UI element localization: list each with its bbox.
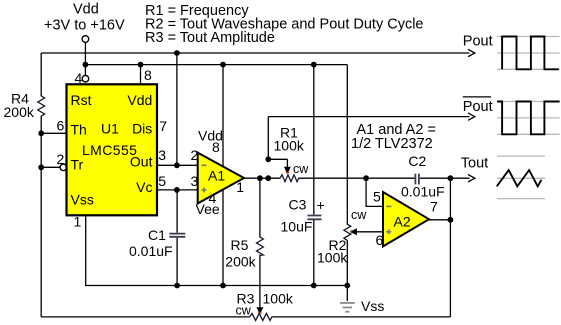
svg-text:Vdd: Vdd [127, 92, 152, 108]
op-amp A1 power pin 8 drop [222, 65, 224, 166]
svg-text:10uF: 10uF [281, 219, 313, 235]
wire C1 branch [176, 190, 178, 286]
junction Tr [38, 164, 44, 170]
op-amp A1 triangle [198, 153, 244, 204]
pin 4 reset bubble [82, 75, 89, 82]
junction Th [38, 130, 44, 136]
junction C1 at ground rail [174, 283, 180, 289]
junction Vdd/pin4 [83, 62, 89, 68]
wire A2 output [429, 219, 450, 221]
svg-text:+3V to +16V: +3V to +16V [44, 17, 125, 33]
svg-text:Pout: Pout [463, 99, 493, 115]
resistor R5 200k [257, 237, 264, 255]
svg-text:7: 7 [159, 118, 167, 134]
svg-text:200k: 200k [4, 104, 35, 120]
junction Pout rail [174, 50, 180, 56]
op-amp A1 Vee pin 4 drop [222, 190, 224, 286]
waveform icon Pout-bar (inverted square wave) [497, 102, 560, 135]
waveform icon Tout (triangle wave) [497, 156, 545, 199]
svg-text:5: 5 [373, 189, 381, 205]
svg-text:100k: 100k [317, 250, 348, 266]
junction A1 out / R5 [257, 175, 263, 181]
svg-text:Pout: Pout [463, 34, 493, 50]
wire left rail (Out feedback to Th/Tr and bottom) [40, 53, 42, 317]
A2 plus sign [386, 229, 391, 234]
svg-text:cw: cw [236, 304, 252, 318]
svg-text:Th: Th [71, 122, 87, 138]
resistor R3 100k (pot) [250, 313, 272, 320]
svg-text:3: 3 [158, 147, 166, 163]
svg-text:1: 1 [236, 179, 244, 195]
svg-text:8: 8 [212, 139, 220, 155]
svg-text:1/2 TLV2372: 1/2 TLV2372 [351, 136, 433, 152]
svg-text:Vc: Vc [136, 179, 152, 195]
ground symbol Vss [340, 303, 355, 312]
wire 555 Vc pin 5 to A1 non-inverting input [157, 189, 198, 191]
junction Vc/C1 [174, 187, 180, 193]
capacitor C3 10uF [307, 216, 321, 220]
wire 555 Vss pin 1 to ground rail [86, 215, 348, 286]
svg-text:C3: C3 [289, 196, 307, 212]
svg-text:C1: C1 [148, 227, 166, 243]
svg-text:U1: U1 [101, 121, 119, 137]
wire pin 4 stub with bubble [84, 65, 86, 76]
svg-text:2: 2 [57, 151, 65, 167]
arrow Pout-bar [468, 113, 475, 120]
R2 wiper arrow (cw) to A2 + input [355, 231, 384, 233]
svg-text:2: 2 [191, 147, 199, 163]
svg-text:Out: Out [130, 154, 153, 170]
junction C3 at Vdd rail [311, 62, 317, 68]
A1 plus sign [202, 187, 207, 192]
wire pin 8 drop [140, 65, 142, 85]
svg-text:1: 1 [74, 213, 82, 229]
junction R2 bottom / ground [344, 283, 350, 289]
svg-text:100k: 100k [263, 290, 294, 306]
svg-text:A2: A2 [394, 213, 411, 229]
svg-text:C2: C2 [408, 153, 426, 169]
junction A2 pin5 branch [363, 175, 369, 181]
legend note R1/R2/R3 [145, 3, 423, 46]
arrow Pout [468, 49, 475, 56]
capacitor C2 0.01uF [415, 174, 419, 185]
IC U1 LMC555 body [67, 84, 158, 215]
svg-text:7: 7 [430, 199, 438, 215]
wire C3 branch (Vdd bypass) [313, 65, 315, 286]
label Pout-bar with overline [463, 96, 491, 98]
resistor R1 100k (pot as rheostat) [280, 175, 299, 182]
wire Vdd rail [85, 64, 347, 66]
svg-text:Vdd: Vdd [73, 2, 99, 18]
svg-text:0.01uF: 0.01uF [129, 243, 173, 259]
power terminal Vdd (+3V to +16V) [44, 2, 125, 43]
op-amp A2 triangle [383, 192, 429, 246]
capacitor C1 0.01uF [169, 234, 185, 237]
R1 wiper jog [268, 117, 287, 168]
svg-text:6: 6 [57, 118, 65, 134]
svg-text:Vss: Vss [71, 191, 94, 207]
junction Tout node [448, 175, 454, 181]
wire Pout-bar rail (A1 output inverted) [268, 116, 469, 118]
A2 minus sign [386, 205, 391, 207]
R3 wiper arrow (cw) [256, 307, 263, 314]
svg-text:cw: cw [351, 208, 367, 222]
resistor R2 100k (pot) [344, 224, 351, 240]
arrow Tout [468, 175, 475, 182]
svg-text:200k: 200k [225, 254, 256, 270]
junction R1 left / wiper [265, 175, 271, 181]
wire right rail A2 out to bottom rail [449, 178, 451, 317]
wire Vdd corner down to R2 [346, 65, 348, 301]
resistor R4 200k [38, 96, 45, 116]
svg-text:0.01uF: 0.01uF [401, 184, 445, 200]
wire Th pin 6 [41, 132, 66, 134]
wire Tr pin 2 [41, 166, 60, 168]
svg-text:Rst: Rst [71, 92, 92, 108]
junction A1 Vdd [220, 62, 226, 68]
R1 wiper arrow (cw) [284, 167, 291, 174]
wire Vdd terminal drop to Vdd rail [84, 42, 86, 64]
svg-text:R3 = Tout Amplitude: R3 = Tout Amplitude [145, 30, 275, 46]
wire Pout net: top rail from 555 output to Pout arrow [41, 52, 469, 54]
svg-text:+: + [317, 197, 325, 213]
wire R5/R3 wiper branch [259, 178, 261, 308]
junction R1 wiper [265, 156, 271, 162]
svg-text:Vss: Vss [361, 298, 384, 314]
wire bottom rail [41, 316, 450, 318]
A1 minus sign [202, 164, 207, 166]
svg-text:100k: 100k [274, 137, 305, 153]
svg-text:5: 5 [158, 173, 166, 189]
junction A1 Vee at ground rail [220, 283, 226, 289]
svg-text:R5: R5 [231, 237, 249, 253]
junction A2 out [448, 217, 454, 223]
junction C3 at ground rail [311, 283, 317, 289]
svg-text:cw: cw [293, 162, 309, 176]
svg-text:Tr: Tr [71, 157, 84, 173]
wire mid rail: A1 out through R1, C2 to Tout arrow [244, 177, 470, 179]
junction pin 8 [138, 62, 144, 68]
pin 2 inverting bubble [60, 164, 67, 171]
junction Out/Pout branch [174, 162, 180, 168]
svg-text:Vee: Vee [196, 201, 220, 217]
svg-text:Tout: Tout [461, 155, 488, 171]
svg-text:A1: A1 [208, 167, 225, 183]
svg-text:8: 8 [144, 67, 152, 83]
waveform icon Pout (square wave) [497, 37, 560, 70]
wire A2 pin 5 feedback jog [366, 178, 383, 206]
svg-text:Dis: Dis [132, 121, 152, 137]
wire 555 Out pin 3 to A1 inverting input [157, 164, 198, 166]
svg-text:3: 3 [191, 173, 199, 189]
wire Pout branch vertical [176, 53, 178, 165]
